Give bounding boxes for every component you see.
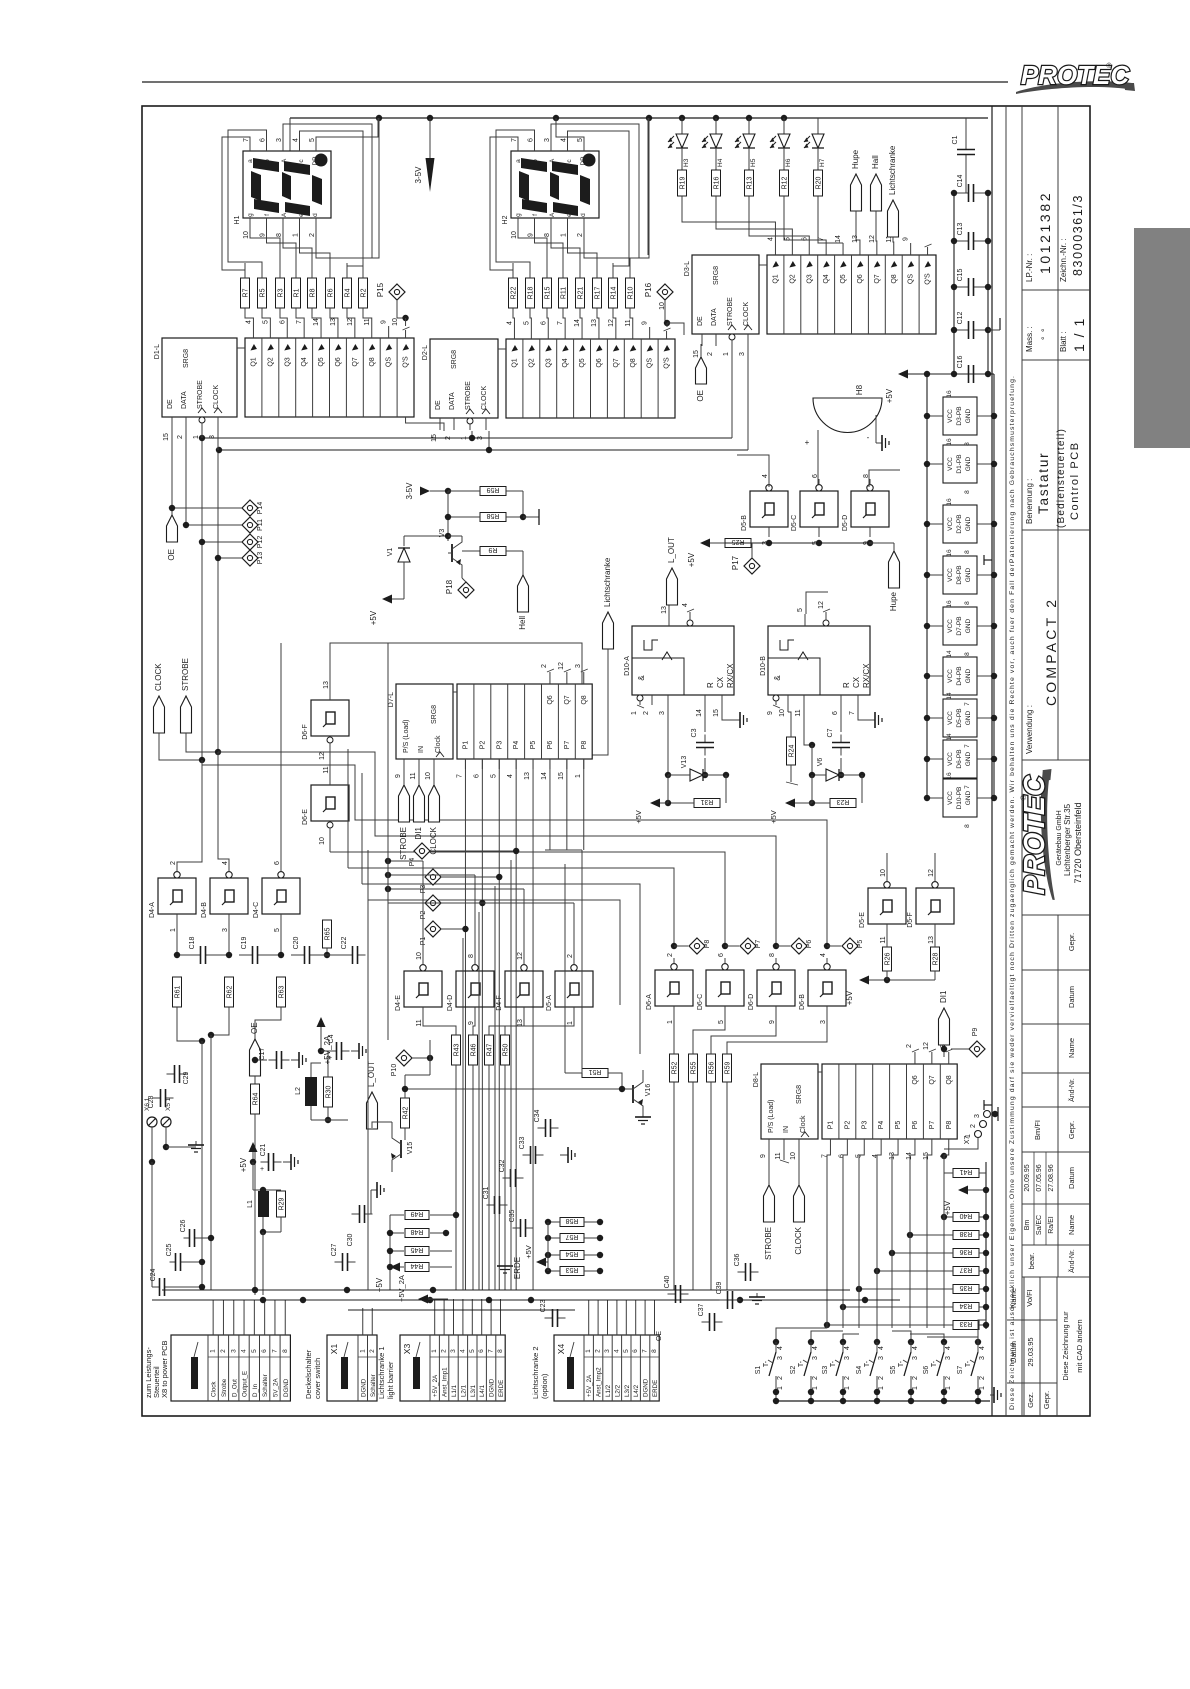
svg-text:Lichtschranke 1: Lichtschranke 1 — [377, 1346, 386, 1399]
svg-text:13: 13 — [323, 681, 330, 689]
svg-text:8: 8 — [964, 550, 971, 554]
svg-text:1: 1 — [844, 1386, 851, 1390]
svg-text:2: 2 — [945, 1376, 952, 1380]
svg-text:°: ° — [1040, 328, 1050, 332]
svg-text:4: 4 — [777, 1346, 784, 1350]
svg-text:L1/2: L1/2 — [605, 1384, 612, 1397]
svg-text:X4: X4 — [556, 1344, 566, 1355]
svg-text:3: 3 — [276, 138, 283, 142]
svg-text:2: 2 — [541, 664, 548, 668]
svg-text:2: 2 — [844, 1376, 851, 1380]
svg-text:7: 7 — [488, 1349, 495, 1353]
svg-text:Gepr.: Gepr. — [1067, 1121, 1076, 1139]
svg-text:R29: R29 — [279, 1197, 286, 1210]
svg-text:D5-C: D5-C — [791, 515, 798, 531]
svg-text:R31: R31 — [700, 798, 713, 805]
svg-text:Blatt :: Blatt : — [1059, 332, 1068, 352]
svg-text:R54: R54 — [565, 1250, 578, 1257]
svg-text:1: 1 — [777, 1386, 784, 1390]
svg-text:+5V: +5V — [239, 1157, 248, 1172]
svg-text:light barrier: light barrier — [386, 1361, 395, 1399]
svg-text:STROBE: STROBE — [727, 297, 734, 326]
svg-text:Q7: Q7 — [874, 274, 881, 283]
svg-text:Tastatur: Tastatur — [1036, 452, 1051, 514]
svg-text:14: 14 — [946, 650, 953, 658]
svg-text:VCC: VCC — [947, 791, 954, 805]
svg-text:Q8: Q8 — [630, 358, 637, 367]
svg-text:4: 4 — [812, 1346, 819, 1350]
svg-text:R51: R51 — [588, 1068, 601, 1075]
svg-text:2: 2 — [707, 352, 714, 356]
svg-text:+5V: +5V — [769, 810, 778, 824]
svg-text:4: 4 — [459, 1349, 466, 1353]
svg-text:R23: R23 — [836, 798, 849, 805]
svg-text:(Bediensteuerteil): (Bediensteuerteil) — [1056, 428, 1067, 528]
svg-text:4: 4 — [767, 237, 774, 241]
svg-text:13: 13 — [524, 772, 531, 780]
svg-text:GND: GND — [965, 618, 972, 633]
svg-text:5: 5 — [274, 928, 281, 932]
svg-text:H6: H6 — [785, 158, 792, 167]
svg-text:+5V: +5V — [845, 990, 854, 1005]
svg-text:Gepr.: Gepr. — [1042, 1391, 1051, 1409]
svg-text:R14: R14 — [611, 286, 618, 299]
svg-text:Lichtenberger Str.35: Lichtenberger Str.35 — [1063, 803, 1072, 876]
svg-text:R8: R8 — [310, 288, 317, 297]
svg-text:DATA: DATA — [449, 392, 456, 410]
svg-text:GND: GND — [965, 567, 972, 582]
svg-text:C33: C33 — [519, 1136, 526, 1149]
svg-text:e: e — [298, 213, 305, 217]
svg-text:P5: P5 — [530, 741, 537, 750]
svg-text:Strobe: Strobe — [221, 1378, 228, 1397]
svg-text:9: 9 — [395, 774, 402, 778]
svg-text:P9: P9 — [972, 1028, 979, 1037]
svg-text:2: 2 — [777, 1376, 784, 1380]
svg-text:Q6: Q6 — [596, 358, 603, 367]
svg-text:9: 9 — [468, 1021, 475, 1025]
svg-text:DGND: DGND — [283, 1378, 290, 1397]
svg-text:5: 5 — [577, 138, 584, 142]
svg-text:71720 Obersteinfeld: 71720 Obersteinfeld — [1073, 802, 1083, 883]
svg-text:8: 8 — [276, 233, 283, 237]
svg-text:R61: R61 — [175, 985, 182, 998]
svg-text:12: 12 — [928, 869, 935, 877]
svg-text:A: A — [281, 212, 288, 217]
svg-text:STROBE: STROBE — [197, 380, 204, 409]
svg-text:12: 12 — [319, 752, 326, 760]
svg-text:A: A — [549, 212, 556, 217]
svg-text:D6-C: D6-C — [697, 994, 704, 1010]
svg-text:D4-F: D4-F — [496, 995, 503, 1011]
svg-text:3: 3 — [544, 138, 551, 142]
svg-text:R28: R28 — [933, 952, 940, 965]
svg-text:DATA: DATA — [711, 308, 718, 326]
svg-text:C15: C15 — [957, 268, 964, 281]
svg-text:CX: CX — [852, 676, 861, 688]
svg-text:+5V: +5V — [687, 552, 696, 567]
svg-text:C7: C7 — [827, 728, 834, 737]
svg-text:e: e — [566, 213, 573, 217]
svg-text:P6: P6 — [547, 741, 554, 750]
svg-text:D6-E: D6-E — [302, 809, 309, 825]
svg-text:P3: P3 — [861, 1121, 868, 1130]
svg-text:CLOCK: CLOCK — [794, 1226, 803, 1254]
svg-text:5: 5 — [262, 320, 269, 324]
svg-text:b: b — [264, 159, 271, 163]
svg-text:R30: R30 — [326, 1085, 333, 1098]
svg-text:20.09.95: 20.09.95 — [1024, 1164, 1031, 1191]
svg-text:C13: C13 — [957, 222, 964, 235]
svg-text:5: 5 — [718, 1020, 725, 1024]
svg-text:2: 2 — [369, 1349, 376, 1353]
svg-text:D4-B: D4-B — [201, 902, 208, 918]
svg-text:mit CAD ändern: mit CAD ändern — [1075, 1319, 1084, 1372]
svg-text:6: 6 — [528, 138, 535, 142]
svg-text:Verwendung :: Verwendung : — [1025, 705, 1034, 754]
svg-text:R59: R59 — [725, 1061, 732, 1074]
svg-text:IN: IN — [418, 746, 425, 753]
svg-text:D5-E: D5-E — [859, 912, 866, 928]
svg-text:X8 to power PCB: X8 to power PCB — [160, 1340, 169, 1398]
svg-text:3-5V: 3-5V — [405, 482, 414, 500]
svg-text:R9: R9 — [488, 546, 497, 553]
svg-text:Q6: Q6 — [912, 1075, 919, 1084]
svg-text:R19: R19 — [680, 176, 687, 189]
svg-text:R3: R3 — [278, 288, 285, 297]
svg-text:DGND: DGND — [643, 1378, 650, 1397]
svg-text:D_In: D_In — [252, 1383, 259, 1397]
svg-text:8: 8 — [769, 953, 776, 957]
svg-text:Bm/FI: Bm/FI — [1033, 1120, 1042, 1140]
svg-text:L4/2: L4/2 — [633, 1384, 640, 1397]
svg-text:12: 12 — [347, 318, 354, 326]
svg-text:D10-B: D10-B — [760, 656, 767, 676]
svg-text:R20: R20 — [816, 176, 823, 189]
svg-text:PROTEC: PROTEC — [1021, 60, 1131, 90]
svg-text:R57: R57 — [565, 1233, 578, 1240]
svg-text:ERDE: ERDE — [652, 1380, 659, 1397]
svg-text:P/S (Load): P/S (Load) — [768, 1100, 775, 1133]
svg-text:Deckelschalter: Deckelschalter — [304, 1349, 313, 1399]
svg-text:Bm: Bm — [1024, 1220, 1031, 1231]
svg-text:C28: C28 — [148, 1095, 155, 1108]
svg-text:7: 7 — [964, 702, 971, 706]
svg-text:H3: H3 — [683, 158, 690, 167]
svg-text:11: 11 — [323, 766, 330, 773]
svg-text:Q7: Q7 — [929, 1075, 936, 1084]
svg-text:6: 6 — [274, 861, 281, 865]
svg-text:8: 8 — [651, 1349, 658, 1353]
svg-text:Mass. :: Mass. : — [1025, 326, 1034, 352]
svg-text:+5V: +5V — [369, 610, 378, 625]
svg-text:2: 2 — [643, 711, 650, 715]
svg-text:QS: QS — [647, 358, 654, 368]
svg-text:8: 8 — [497, 1349, 504, 1353]
svg-text:DE: DE — [167, 399, 174, 409]
svg-text:Zeichn.-Nr. :: Zeichn.-Nr. : — [1059, 238, 1068, 282]
svg-text:16: 16 — [946, 438, 953, 446]
svg-text:Q5: Q5 — [840, 274, 847, 283]
svg-text:R41: R41 — [959, 1168, 972, 1175]
svg-text:L2/2: L2/2 — [614, 1384, 621, 1397]
svg-text:g: g — [247, 213, 254, 217]
svg-text:C3: C3 — [691, 728, 698, 737]
svg-text:3: 3 — [974, 1114, 981, 1118]
svg-text:V15: V15 — [407, 1142, 414, 1155]
svg-text:Q8: Q8 — [581, 695, 588, 704]
svg-text:DGND: DGND — [360, 1378, 367, 1397]
svg-text:14: 14 — [946, 733, 953, 741]
svg-text:&: & — [773, 675, 782, 681]
svg-text:D5-D: D5-D — [842, 515, 849, 531]
svg-text:3-5V: 3-5V — [414, 166, 423, 184]
svg-text:16: 16 — [946, 390, 953, 398]
svg-text:Benennung :: Benennung : — [1025, 479, 1034, 524]
svg-text:4: 4 — [613, 1349, 620, 1353]
svg-text:10: 10 — [779, 709, 786, 717]
svg-text:14: 14 — [696, 709, 703, 717]
svg-text:P7: P7 — [755, 940, 762, 949]
svg-text:9: 9 — [769, 1020, 776, 1024]
svg-text:2: 2 — [979, 1376, 986, 1380]
svg-text:D6-F: D6-F — [302, 724, 309, 740]
svg-text:16: 16 — [946, 498, 953, 506]
svg-text:V3: V3 — [439, 529, 446, 538]
svg-text:d: d — [580, 213, 587, 217]
svg-text:D1-PB: D1-PB — [956, 454, 963, 473]
svg-text:Name: Name — [1009, 1288, 1018, 1308]
svg-text:13: 13 — [852, 235, 859, 243]
svg-text:11: 11 — [625, 319, 632, 326]
svg-text:16: 16 — [946, 772, 953, 780]
svg-text:Datum: Datum — [1067, 1167, 1076, 1189]
svg-text:6: 6 — [260, 138, 267, 142]
svg-text:8: 8 — [964, 601, 971, 605]
svg-text:P3: P3 — [496, 741, 503, 750]
svg-text:8: 8 — [964, 824, 971, 828]
svg-text:Lichtschranke: Lichtschranke — [888, 145, 897, 195]
svg-text:CLOCK: CLOCK — [743, 302, 750, 326]
svg-text:7: 7 — [964, 785, 971, 789]
svg-text:2: 2 — [667, 953, 674, 957]
svg-text:V16: V16 — [645, 1084, 652, 1097]
svg-text:L2: L2 — [295, 1087, 302, 1095]
svg-text:Q7: Q7 — [613, 358, 620, 367]
svg-text:2: 2 — [177, 435, 184, 439]
svg-text:R47: R47 — [487, 1043, 494, 1056]
svg-text:10: 10 — [880, 869, 887, 877]
svg-text:4: 4 — [682, 603, 689, 607]
svg-text:SRG8: SRG8 — [183, 349, 190, 368]
svg-text:Gez.: Gez. — [1026, 1392, 1035, 1408]
svg-text:GND: GND — [965, 710, 972, 725]
svg-text:+5V: +5V — [885, 388, 894, 403]
svg-text:12: 12 — [818, 601, 825, 609]
svg-text:R13: R13 — [747, 176, 754, 189]
svg-text:7: 7 — [456, 774, 463, 778]
svg-text:Q8: Q8 — [369, 357, 376, 366]
svg-text:Q1: Q1 — [772, 274, 779, 283]
svg-text:C19: C19 — [241, 936, 248, 949]
svg-text:S4: S4 — [856, 1366, 863, 1375]
svg-text:2: 2 — [441, 1349, 448, 1353]
svg-text:Clock: Clock — [435, 735, 442, 753]
svg-text:°: ° — [1040, 336, 1050, 340]
svg-text:3: 3 — [739, 352, 746, 356]
svg-text:83000361/3: 83000361/3 — [1071, 194, 1085, 276]
svg-text:SRG8: SRG8 — [431, 705, 438, 724]
svg-text:+: + — [260, 1166, 264, 1173]
svg-text:X3: X3 — [402, 1344, 412, 1355]
svg-text:Q2: Q2 — [267, 357, 274, 366]
svg-text:GND: GND — [965, 516, 972, 531]
svg-text:5: 5 — [523, 321, 530, 325]
svg-text:9: 9 — [642, 321, 649, 325]
svg-text:16: 16 — [946, 600, 953, 608]
svg-text:4: 4 — [507, 774, 514, 778]
svg-text:COMPACT 2: COMPACT 2 — [1043, 597, 1059, 706]
svg-text:+5V: +5V — [524, 1245, 533, 1259]
svg-text:1: 1 — [585, 1349, 592, 1353]
svg-text:STROBE: STROBE — [399, 827, 408, 860]
svg-text:4: 4 — [945, 1346, 952, 1350]
svg-text:OE: OE — [167, 549, 176, 561]
svg-text:+5V_2A: +5V_2A — [586, 1374, 593, 1397]
svg-text:27.08.96: 27.08.96 — [1048, 1164, 1055, 1191]
svg-text:1: 1 — [575, 774, 582, 778]
svg-text:RX/CX: RX/CX — [862, 663, 871, 688]
svg-text:14: 14 — [541, 772, 548, 780]
svg-text:1: 1 — [979, 1386, 986, 1390]
svg-text:Q6: Q6 — [547, 695, 554, 704]
svg-text:R42: R42 — [403, 1106, 410, 1119]
svg-text:DI1: DI1 — [414, 826, 423, 839]
svg-text:VCC: VCC — [947, 711, 954, 725]
svg-text:D4-A: D4-A — [149, 902, 156, 918]
svg-text:R5: R5 — [260, 288, 267, 297]
svg-text:C40: C40 — [664, 1275, 671, 1288]
svg-text:Datum: Datum — [1067, 986, 1076, 1008]
svg-text:SRG8: SRG8 — [451, 350, 458, 369]
svg-text:Q3: Q3 — [284, 357, 291, 366]
svg-text:6: 6 — [279, 320, 286, 324]
svg-text:5: 5 — [469, 1349, 476, 1353]
svg-text:D10-PB: D10-PB — [956, 787, 963, 810]
svg-text:L1: L1 — [247, 1200, 254, 1208]
svg-text:4: 4 — [878, 1346, 885, 1350]
svg-text:CX: CX — [716, 676, 725, 688]
svg-text:D5-A: D5-A — [546, 995, 553, 1011]
svg-text:C24: C24 — [150, 1268, 157, 1281]
svg-text:P4: P4 — [513, 741, 520, 750]
svg-text:P8: P8 — [946, 1121, 953, 1130]
svg-text:1: 1 — [723, 352, 730, 356]
svg-text:6: 6 — [540, 321, 547, 325]
svg-text:QS: QS — [386, 357, 393, 367]
svg-text:T-: T- — [931, 1360, 938, 1367]
svg-text:VCC: VCC — [947, 568, 954, 582]
svg-text:V13: V13 — [681, 756, 688, 769]
svg-text:7: 7 — [511, 138, 518, 142]
svg-text:C16: C16 — [957, 355, 964, 368]
svg-text:3: 3 — [604, 1349, 611, 1353]
svg-text:16: 16 — [946, 549, 953, 557]
svg-text:Hupe: Hupe — [851, 149, 860, 169]
svg-text:DE: DE — [697, 316, 704, 326]
svg-text:3: 3 — [659, 711, 666, 715]
svg-text:R64: R64 — [253, 1092, 260, 1105]
svg-text:C14: C14 — [957, 174, 964, 187]
svg-text:4: 4 — [245, 320, 252, 324]
svg-text:R26: R26 — [885, 952, 892, 965]
svg-text:3: 3 — [230, 1349, 237, 1353]
svg-text:4: 4 — [912, 1346, 919, 1350]
svg-text:Hell: Hell — [518, 616, 527, 630]
svg-text:1: 1 — [359, 1349, 366, 1353]
svg-text:11: 11 — [880, 936, 887, 943]
svg-text:A: A — [281, 158, 288, 163]
svg-text:S3: S3 — [822, 1366, 829, 1375]
svg-text:D5-PB: D5-PB — [956, 708, 963, 727]
svg-text:4: 4 — [844, 1346, 851, 1350]
svg-text:STROBE: STROBE — [181, 658, 190, 691]
svg-text:3: 3 — [222, 928, 229, 932]
svg-text:13: 13 — [330, 318, 337, 326]
svg-text:VCC: VCC — [947, 517, 954, 531]
svg-text:Q1: Q1 — [511, 358, 518, 367]
svg-text:S7: S7 — [957, 1366, 964, 1375]
svg-text:C35: C35 — [509, 1209, 516, 1222]
svg-text:12: 12 — [923, 1042, 930, 1050]
svg-text:CLOCK: CLOCK — [481, 386, 488, 410]
svg-text:R33: R33 — [959, 1320, 972, 1327]
svg-text:D4-E: D4-E — [395, 995, 402, 1011]
svg-text:GND: GND — [965, 456, 972, 471]
svg-text:R40: R40 — [959, 1212, 972, 1219]
svg-text:3: 3 — [940, 1044, 947, 1048]
svg-text:R36: R36 — [959, 1248, 972, 1255]
svg-text:3: 3 — [878, 1356, 885, 1360]
svg-text:(option): (option) — [540, 1373, 549, 1399]
svg-text:SRG8: SRG8 — [796, 1085, 803, 1104]
svg-text:C21: C21 — [260, 1143, 267, 1156]
svg-text:9: 9 — [760, 1154, 767, 1158]
svg-text:C37: C37 — [698, 1303, 705, 1316]
svg-text:C26: C26 — [180, 1219, 187, 1232]
svg-text:S6: S6 — [923, 1366, 930, 1375]
svg-text:g: g — [515, 213, 522, 217]
svg-text:2: 2 — [577, 233, 584, 237]
svg-text:07.05.96: 07.05.96 — [1036, 1164, 1043, 1191]
svg-text:Sa/EC: Sa/EC — [1036, 1215, 1043, 1235]
svg-text:VCC: VCC — [947, 409, 954, 423]
svg-text:H1: H1 — [234, 215, 241, 224]
svg-text:C20: C20 — [293, 936, 300, 949]
svg-text:P1: P1 — [827, 1121, 834, 1130]
svg-text:+: + — [328, 1055, 332, 1062]
svg-text:R18: R18 — [528, 286, 535, 299]
svg-text:P2: P2 — [844, 1121, 851, 1130]
svg-text:Hall: Hall — [871, 155, 880, 169]
svg-text:R45: R45 — [410, 1246, 423, 1253]
svg-text:4: 4 — [561, 138, 568, 142]
svg-text:2: 2 — [912, 1376, 919, 1380]
svg-text:R49: R49 — [410, 1210, 423, 1217]
svg-text:8: 8 — [282, 1349, 289, 1353]
svg-text:6: 6 — [478, 1349, 485, 1353]
svg-text:R43: R43 — [454, 1043, 461, 1056]
